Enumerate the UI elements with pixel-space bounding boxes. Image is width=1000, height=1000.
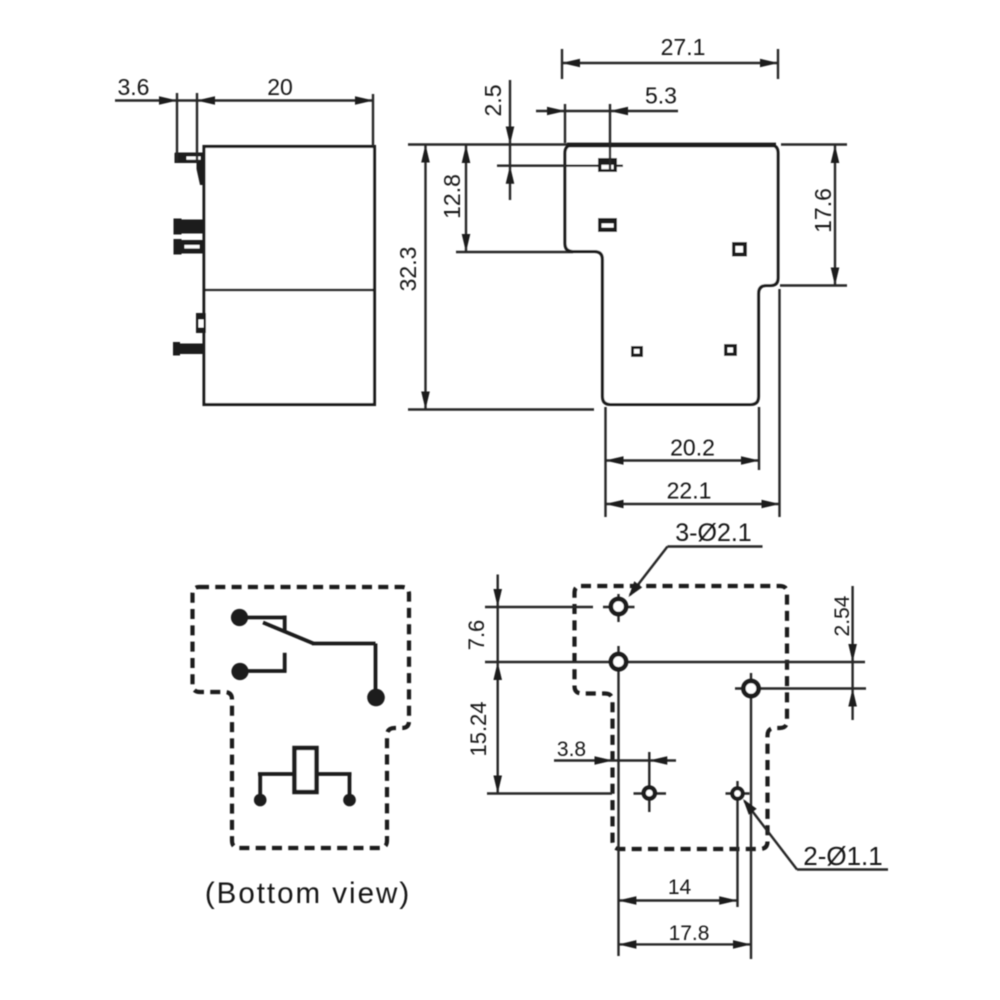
svg-text:14: 14 xyxy=(668,876,692,899)
svg-text:27.1: 27.1 xyxy=(661,34,706,60)
svg-text:(Bottom view): (Bottom view) xyxy=(205,877,411,910)
svg-text:20: 20 xyxy=(267,74,293,100)
svg-text:2.54: 2.54 xyxy=(831,595,854,636)
svg-text:22.1: 22.1 xyxy=(667,478,712,504)
svg-text:17.6: 17.6 xyxy=(810,188,836,233)
svg-text:2.5: 2.5 xyxy=(480,85,506,117)
svg-text:12.8: 12.8 xyxy=(439,174,465,219)
svg-text:3-Ø2.1: 3-Ø2.1 xyxy=(675,519,751,547)
svg-text:2-Ø1.1: 2-Ø1.1 xyxy=(803,841,883,871)
svg-text:15.24: 15.24 xyxy=(466,701,491,756)
svg-text:20.2: 20.2 xyxy=(670,435,715,461)
svg-text:32.3: 32.3 xyxy=(395,247,421,292)
svg-text:3.6: 3.6 xyxy=(118,74,150,100)
svg-text:17.8: 17.8 xyxy=(669,922,710,945)
svg-text:5.3: 5.3 xyxy=(645,83,677,109)
svg-text:7.6: 7.6 xyxy=(464,620,489,651)
svg-text:3.8: 3.8 xyxy=(557,738,586,761)
